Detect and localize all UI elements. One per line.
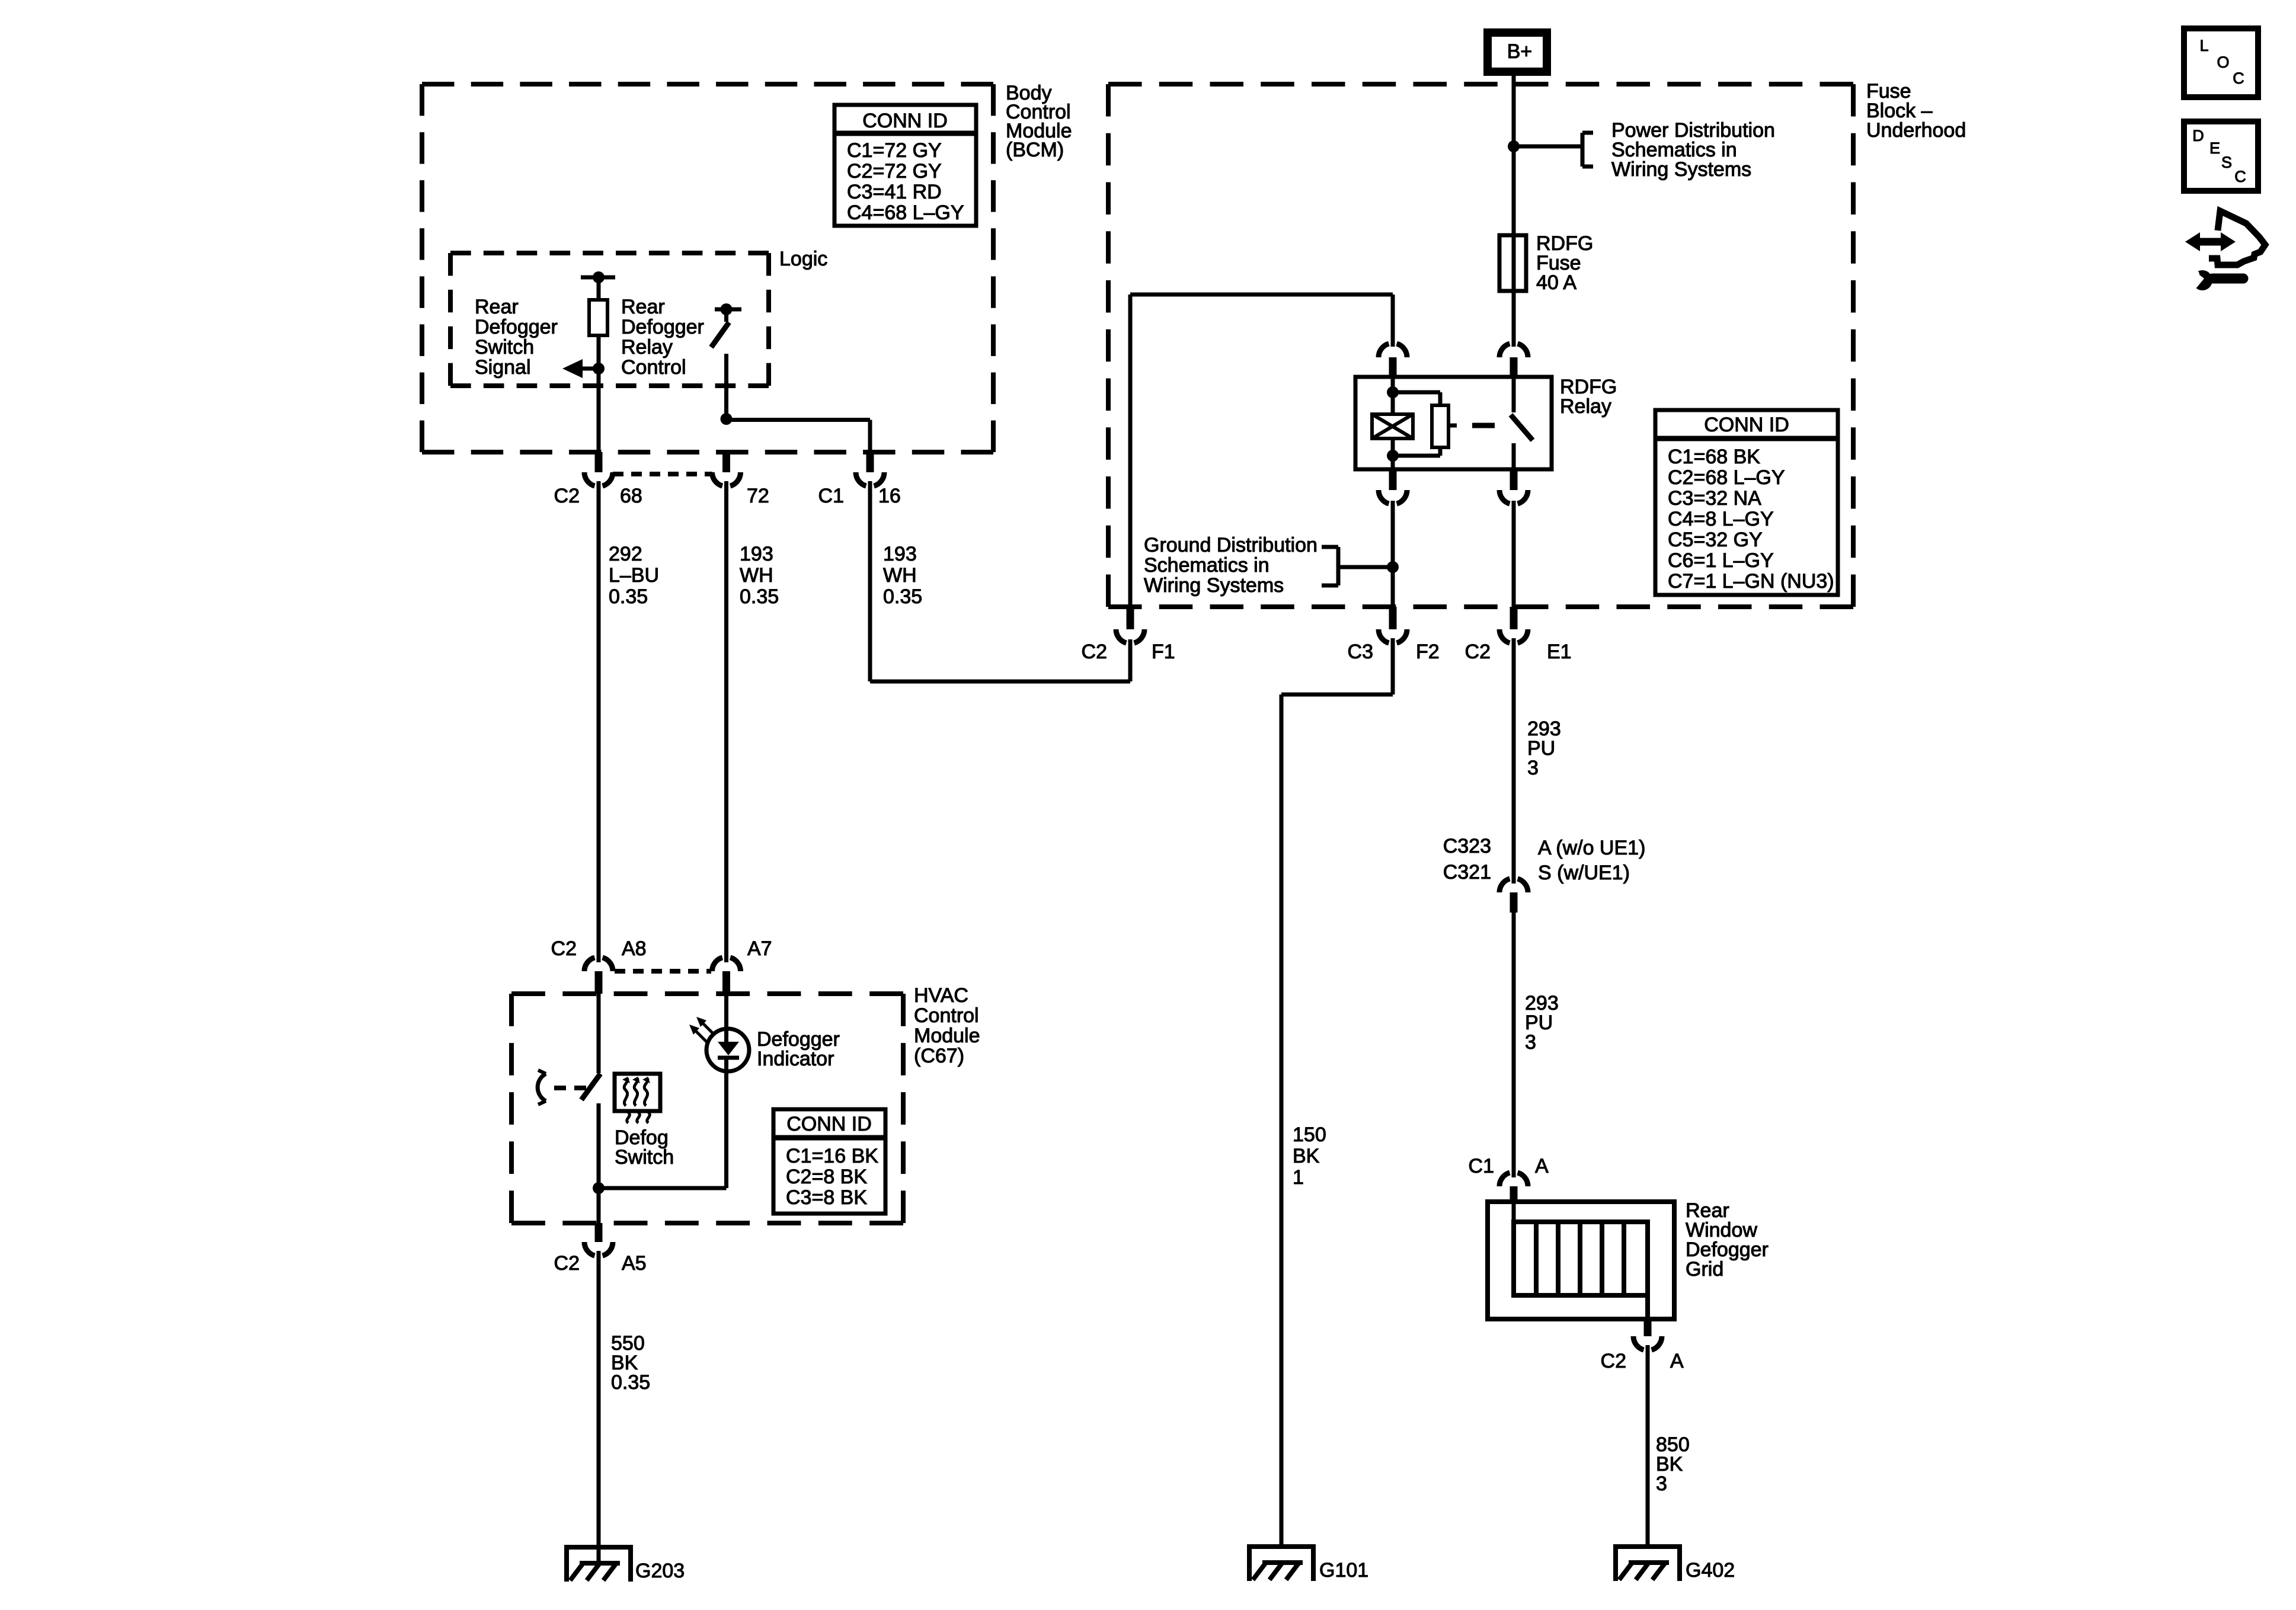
svg-text:BK: BK — [1293, 1145, 1320, 1167]
svg-text:Switch: Switch — [475, 336, 534, 359]
svg-text:Relay: Relay — [1560, 395, 1611, 418]
svg-text:(C67): (C67) — [914, 1045, 964, 1067]
svg-text:HVAC: HVAC — [914, 984, 968, 1007]
svg-text:C1=72 GY: C1=72 GY — [847, 139, 942, 162]
svg-text:G402: G402 — [1686, 1559, 1735, 1582]
svg-text:S: S — [2221, 153, 2232, 171]
svg-text:L: L — [2199, 37, 2208, 55]
svg-text:WH: WH — [883, 564, 917, 587]
svg-text:Signal: Signal — [475, 356, 531, 379]
svg-text:(BCM): (BCM) — [1006, 139, 1064, 161]
svg-text:C2: C2 — [1465, 641, 1491, 663]
svg-text:0.35: 0.35 — [611, 1371, 650, 1394]
svg-text:C1=16 BK: C1=16 BK — [786, 1145, 878, 1167]
svg-text:C7=1 L–GN (NU3): C7=1 L–GN (NU3) — [1668, 570, 1834, 593]
svg-text:68: 68 — [620, 485, 642, 507]
svg-text:C4=68 L–GY: C4=68 L–GY — [847, 201, 964, 224]
svg-text:Rear: Rear — [621, 296, 665, 318]
svg-text:C2=8 BK: C2=8 BK — [786, 1166, 867, 1188]
svg-text:L–BU: L–BU — [609, 564, 659, 587]
svg-text:CONN ID: CONN ID — [862, 110, 948, 132]
svg-text:292: 292 — [609, 543, 642, 565]
svg-text:C321: C321 — [1443, 861, 1491, 884]
svg-text:F1: F1 — [1152, 641, 1175, 663]
svg-text:Defogger: Defogger — [475, 316, 558, 338]
svg-text:A8: A8 — [622, 937, 647, 960]
svg-text:A7: A7 — [747, 937, 772, 960]
svg-text:0.35: 0.35 — [609, 585, 648, 608]
svg-text:C2: C2 — [1601, 1350, 1626, 1372]
svg-text:C5=32 GY: C5=32 GY — [1668, 529, 1763, 551]
svg-text:C3: C3 — [1348, 641, 1373, 663]
svg-text:Underhood: Underhood — [1866, 119, 1966, 142]
svg-text:C: C — [2234, 168, 2246, 185]
svg-text:C2: C2 — [554, 1252, 580, 1275]
svg-text:C1: C1 — [818, 485, 844, 507]
svg-text:Grid: Grid — [1686, 1258, 1723, 1281]
svg-text:Logic: Logic — [779, 248, 827, 270]
svg-text:Control: Control — [621, 356, 686, 379]
svg-text:193: 193 — [883, 543, 917, 565]
svg-text:Schematics in: Schematics in — [1144, 554, 1269, 577]
svg-text:C2: C2 — [551, 937, 577, 960]
svg-text:C1: C1 — [1469, 1155, 1494, 1177]
svg-text:Wiring Systems: Wiring Systems — [1611, 158, 1751, 181]
svg-text:CONN ID: CONN ID — [786, 1113, 872, 1135]
svg-text:Relay: Relay — [621, 336, 673, 359]
svg-text:Wiring Systems: Wiring Systems — [1144, 574, 1284, 597]
svg-text:A5: A5 — [622, 1252, 647, 1275]
svg-text:WH: WH — [740, 564, 773, 587]
svg-text:0.35: 0.35 — [883, 585, 922, 608]
svg-text:A (w/o UE1): A (w/o UE1) — [1538, 837, 1645, 859]
svg-text:Module: Module — [914, 1025, 980, 1047]
svg-text:C2=68 L–GY: C2=68 L–GY — [1668, 466, 1785, 489]
svg-text:A: A — [1670, 1350, 1684, 1372]
svg-text:C2: C2 — [554, 485, 580, 507]
svg-text:S (w/UE1): S (w/UE1) — [1538, 862, 1630, 884]
svg-text:C6=1 L–GY: C6=1 L–GY — [1668, 549, 1774, 572]
svg-text:F2: F2 — [1416, 641, 1440, 663]
svg-text:C2=72 GY: C2=72 GY — [847, 160, 942, 183]
svg-text:C3=8 BK: C3=8 BK — [786, 1186, 867, 1209]
svg-text:E1: E1 — [1547, 641, 1572, 663]
svg-text:3: 3 — [1656, 1473, 1667, 1495]
svg-text:G203: G203 — [635, 1560, 685, 1582]
svg-text:150: 150 — [1293, 1124, 1326, 1146]
svg-text:G101: G101 — [1319, 1559, 1368, 1582]
svg-text:1: 1 — [1293, 1166, 1304, 1189]
svg-text:E: E — [2209, 139, 2220, 157]
svg-text:3: 3 — [1527, 757, 1539, 779]
svg-text:C1=68 BK: C1=68 BK — [1668, 446, 1760, 468]
svg-text:Ground Distribution: Ground Distribution — [1144, 534, 1318, 556]
svg-text:C3=41 RD: C3=41 RD — [847, 181, 942, 203]
svg-text:C323: C323 — [1443, 835, 1491, 857]
svg-text:CONN ID: CONN ID — [1704, 414, 1789, 436]
svg-text:193: 193 — [740, 543, 773, 565]
svg-text:C: C — [2233, 69, 2244, 87]
svg-text:3: 3 — [1525, 1031, 1536, 1054]
svg-text:Switch: Switch — [615, 1146, 674, 1169]
svg-text:C3=32 NA: C3=32 NA — [1668, 487, 1761, 510]
svg-text:D: D — [2192, 127, 2204, 145]
svg-text:40 A: 40 A — [1536, 271, 1576, 294]
svg-text:72: 72 — [747, 485, 769, 507]
svg-text:Control: Control — [914, 1004, 979, 1027]
svg-text:Defogger: Defogger — [621, 316, 704, 338]
svg-text:16: 16 — [878, 485, 901, 507]
svg-text:Rear: Rear — [475, 296, 519, 318]
svg-text:C4=8 L–GY: C4=8 L–GY — [1668, 508, 1774, 530]
svg-text:0.35: 0.35 — [740, 585, 779, 608]
svg-text:B+: B+ — [1507, 40, 1533, 63]
svg-text:O: O — [2217, 53, 2229, 71]
svg-text:A: A — [1535, 1155, 1549, 1177]
svg-text:C2: C2 — [1082, 641, 1107, 663]
svg-text:Indicator: Indicator — [757, 1048, 834, 1070]
